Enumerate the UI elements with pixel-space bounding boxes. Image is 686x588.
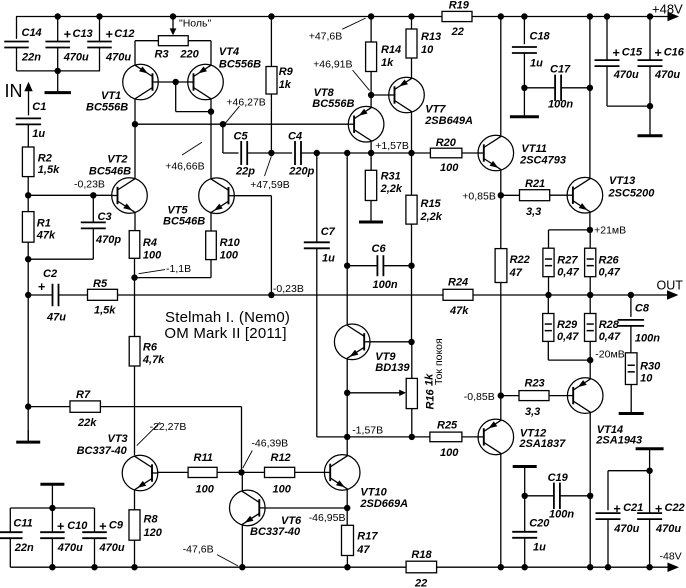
wire R22 bottom lead <box>500 283 502 396</box>
junction R17 rail node <box>344 564 350 570</box>
transistor VT12 <box>478 419 566 455</box>
wire R6 to VT3 <box>134 366 136 455</box>
svg-text:0,47: 0,47 <box>599 267 621 279</box>
label +46,66V <box>165 161 204 173</box>
junction rail C12 <box>96 13 102 19</box>
svg-text:OUT: OUT <box>657 279 684 293</box>
svg-text:IN: IN <box>5 81 23 101</box>
label -22,27V <box>150 421 187 433</box>
svg-text:C11: C11 <box>13 518 32 530</box>
junction VT10 emitter node <box>344 505 350 511</box>
svg-text:C14: C14 <box>22 27 42 39</box>
leader line -46,39V <box>243 451 253 469</box>
svg-text:R22: R22 <box>510 254 530 266</box>
wire R26 top lead <box>589 230 591 248</box>
svg-text:R31: R31 <box>381 171 401 183</box>
junction -0,85V node <box>498 392 504 398</box>
svg-text:VT10: VT10 <box>360 487 387 499</box>
svg-text:+47,59В: +47,59В <box>250 179 289 191</box>
svg-text:BC546B: BC546B <box>163 216 205 228</box>
resistor R1 <box>22 212 56 243</box>
wire C21 branch <box>608 471 650 511</box>
capacitor C18 <box>512 31 551 70</box>
svg-text:BC556B: BC556B <box>219 59 261 71</box>
svg-text:C6: C6 <box>372 243 387 255</box>
wire R23 to VT14 base <box>549 395 567 397</box>
svg-text:C16: C16 <box>664 47 685 59</box>
svg-text:-48V: -48V <box>660 551 682 563</box>
svg-text:+: + <box>57 520 64 534</box>
leader line +46,27V <box>225 106 239 123</box>
wire C12 bottom lead <box>99 47 101 71</box>
svg-text:-0,23В: -0,23В <box>74 179 105 191</box>
label +47,6V <box>309 31 343 43</box>
junction VT9 base node <box>408 339 414 345</box>
svg-text:+: + <box>655 46 662 60</box>
svg-text:-1,57В: -1,57В <box>352 425 383 437</box>
wire R20 to VT11 base <box>462 152 478 154</box>
resistor R31 <box>365 170 403 200</box>
junction C17/VT13 node <box>587 85 593 91</box>
leader line +47,6V <box>342 18 365 29</box>
svg-text:+: + <box>613 502 620 516</box>
wire R13 top lead <box>411 17 413 30</box>
resistor R11 <box>188 452 217 496</box>
transistor VT3 <box>77 433 158 491</box>
wire C3 bottom <box>28 228 93 259</box>
junction rail C15 <box>604 13 610 19</box>
wire R6 top lead <box>134 278 136 337</box>
svg-text:22p: 22p <box>235 166 255 178</box>
svg-text:1,5k: 1,5k <box>38 164 60 176</box>
wire VT6 emitter lead <box>241 525 243 567</box>
junction rail R13 <box>408 13 414 19</box>
label +1,57V <box>375 140 409 152</box>
svg-text:47: 47 <box>509 267 523 279</box>
leader line -47,6V <box>217 555 238 566</box>
wire C19 left lead <box>525 495 554 497</box>
svg-text:100n: 100n <box>635 333 660 345</box>
svg-text:470u: 470u <box>63 52 89 64</box>
capacitor C3 <box>81 211 122 246</box>
svg-text:470u: 470u <box>105 52 131 64</box>
wire C18 top lead <box>523 17 525 45</box>
transistor VT11 <box>478 135 566 171</box>
capacitor C8 <box>618 303 661 345</box>
junction VT4 collector node <box>208 108 214 114</box>
wire C14 bottom lead <box>16 47 18 71</box>
svg-text:C2: C2 <box>43 268 57 280</box>
svg-text:R7: R7 <box>76 389 91 401</box>
wire VT14 collector lead <box>589 413 591 568</box>
resistor R6 <box>129 337 165 367</box>
junction C9 rail node <box>91 564 97 570</box>
svg-text:100n: 100n <box>549 509 574 521</box>
capacitor C12 <box>87 28 134 64</box>
wire C5 branch <box>223 124 239 153</box>
svg-text:BC556B: BC556B <box>86 102 128 114</box>
resistor R24 <box>443 277 473 318</box>
wire C20 bottom lead <box>524 538 526 568</box>
svg-text:R18: R18 <box>411 549 432 561</box>
junction C22 rail node <box>646 564 652 570</box>
junction rail VT13 line <box>587 13 593 19</box>
svg-text:22: 22 <box>451 26 464 38</box>
resistor R14 <box>366 42 402 72</box>
svg-text:+46,27В: +46,27В <box>226 97 265 109</box>
svg-text:C5: C5 <box>234 131 249 143</box>
label R16 value <box>424 373 437 410</box>
svg-text:C10: C10 <box>67 520 88 532</box>
svg-text:100: 100 <box>196 484 215 496</box>
wire R16 top lead <box>411 342 413 378</box>
transistor VT8 <box>312 87 384 142</box>
wire C19 right lead <box>560 495 590 497</box>
wire -20mV wire <box>548 341 590 360</box>
wire left column <box>27 259 29 441</box>
svg-text:+: + <box>38 280 45 294</box>
junction C7 tap <box>314 150 320 156</box>
junction C21 rail node <box>605 564 611 570</box>
svg-text:+48V: +48V <box>652 2 683 17</box>
label -1,57V <box>352 425 383 437</box>
transistor VT6 <box>230 490 303 538</box>
transistor VT14 <box>567 378 642 447</box>
capacitor C9 <box>82 520 125 555</box>
svg-text:4,7k: 4,7k <box>142 354 165 366</box>
wire VT2 emitter lead <box>134 212 136 230</box>
leader line -22,27V <box>137 422 160 445</box>
junction C8 node <box>628 292 634 298</box>
svg-text:BC546B: BC546B <box>89 166 131 178</box>
svg-text:1u: 1u <box>322 253 335 265</box>
wire VT9 emitter lead <box>346 359 348 393</box>
ground G2 <box>16 430 40 442</box>
wire cap bank bottom <box>17 70 101 72</box>
junction VT9 branch tap <box>344 150 350 156</box>
wire C13 top lead <box>57 17 59 42</box>
label Tok pokoya <box>433 338 445 385</box>
wire C9 top lead <box>94 508 96 532</box>
label +47,59V <box>250 179 289 191</box>
junction VT1/VT2 node <box>132 121 138 127</box>
svg-text:10: 10 <box>640 373 653 385</box>
junction VT8 emitter node <box>368 92 374 98</box>
junction R16 bottom node <box>409 434 415 440</box>
wire R9 bottom lead <box>270 94 272 153</box>
svg-text:C1: C1 <box>32 101 46 113</box>
wire comp wire <box>301 152 431 154</box>
wire VT11 to R21 <box>501 194 520 196</box>
leader line +47,59V <box>265 157 272 177</box>
capacitor C2 <box>38 268 66 324</box>
resistor R13 <box>406 29 441 58</box>
svg-text:R17: R17 <box>357 531 378 543</box>
resistor R30 <box>625 353 661 385</box>
leader line +46,66V <box>182 142 202 155</box>
wire R1 bottom lead <box>27 242 29 259</box>
leader line -1,1V <box>139 270 166 274</box>
wire R26 bottom lead <box>589 277 591 295</box>
svg-text:C22: C22 <box>665 502 685 514</box>
svg-text:-1,1В: -1,1В <box>166 263 191 275</box>
leader line +46,91V <box>353 70 370 90</box>
svg-text:R2: R2 <box>38 153 52 165</box>
svg-text:-46,39В: -46,39В <box>251 438 288 450</box>
ground G1 <box>45 71 71 93</box>
junction R16 wiper node <box>344 390 350 396</box>
wire R22 top lead <box>500 195 502 248</box>
svg-text:R8: R8 <box>144 514 159 526</box>
svg-text:R26: R26 <box>599 255 620 267</box>
wire VT8 base wire <box>371 94 389 96</box>
svg-text:C17: C17 <box>550 64 571 76</box>
resistor R2 <box>22 147 60 177</box>
wire C8 to R30 <box>630 326 632 353</box>
svg-text:R6: R6 <box>143 342 158 354</box>
svg-text:220p: 220p <box>288 166 314 178</box>
svg-text:100: 100 <box>143 250 162 262</box>
svg-text:VT2: VT2 <box>107 154 127 166</box>
ground G5 <box>638 106 663 136</box>
trimmer wiper arrow Nol <box>170 17 177 36</box>
resistor R20 <box>430 137 462 174</box>
svg-text:2,2k: 2,2k <box>420 211 443 223</box>
label -0,23V left <box>74 179 105 191</box>
svg-text:+0,85В: +0,85В <box>462 191 496 203</box>
svg-text:2SA1837: 2SA1837 <box>518 438 566 450</box>
wire C11 top lead <box>9 508 11 532</box>
svg-text:OM Mark II [2011]: OM Mark II [2011] <box>164 325 286 342</box>
label OUT with arrow <box>657 279 684 300</box>
wire VT2 collector lead <box>134 124 136 179</box>
junction VT14 rail node <box>587 564 593 570</box>
wire R9 top lead <box>270 17 272 67</box>
resistor R18 <box>406 549 437 588</box>
transistor VT13 <box>567 175 655 213</box>
wire VT8 collector lead <box>370 141 372 171</box>
svg-text:2,2k: 2,2k <box>380 183 403 195</box>
svg-text:-47,6В: -47,6В <box>183 544 214 556</box>
junction +21mV node <box>587 227 593 233</box>
svg-text:R16: R16 <box>425 388 437 409</box>
wire R1 top lead <box>27 195 29 211</box>
wire VT9 collector branch <box>346 153 348 324</box>
svg-text:BC337-40: BC337-40 <box>77 445 128 457</box>
svg-text:+: + <box>64 28 71 42</box>
svg-text:1,5k: 1,5k <box>94 305 116 317</box>
wire VT3 base wire <box>158 471 188 473</box>
svg-text:C3: C3 <box>98 211 112 223</box>
wire output wire <box>473 294 668 296</box>
transistor VT5 <box>163 178 234 228</box>
junction C5 branch tap <box>220 121 226 127</box>
svg-text:2SC5200: 2SC5200 <box>608 188 656 200</box>
svg-text:22: 22 <box>414 578 427 588</box>
wire VT4 to VT5 <box>210 99 212 179</box>
common rail tap T2 <box>636 449 664 471</box>
svg-text:+: + <box>655 502 662 516</box>
svg-text:470u: 470u <box>613 523 639 535</box>
title text <box>164 309 290 342</box>
wire C18 bottom lead <box>523 53 525 88</box>
wire feedback wire -0,23V <box>118 294 444 296</box>
wire R8 bottom lead <box>134 540 136 567</box>
wire R17 top lead <box>346 508 348 525</box>
junction C3 tap <box>90 192 96 198</box>
wire C17 left lead <box>524 87 555 89</box>
svg-text:C9: C9 <box>109 520 124 532</box>
label -46,95V <box>309 512 346 524</box>
junction C18/C17 node <box>521 85 527 91</box>
svg-text:47k: 47k <box>449 305 469 317</box>
resistor R27 <box>543 248 580 278</box>
svg-text:2SC4793: 2SC4793 <box>519 155 566 167</box>
label +0,85V <box>462 191 496 203</box>
ground G6 <box>619 385 644 414</box>
svg-text:-0,23В: -0,23В <box>273 283 304 295</box>
resistor R8 <box>129 510 163 540</box>
capacitor C17 <box>548 64 573 111</box>
wire R25 to VT12 base <box>462 436 478 438</box>
capacitor C1 <box>16 101 47 140</box>
svg-text:R23: R23 <box>525 378 545 390</box>
label +46,91V <box>313 59 352 71</box>
wire +48V rail <box>16 16 670 18</box>
resistor R9 <box>266 66 294 94</box>
junction C19/C20 node <box>522 493 528 499</box>
capacitor C4 <box>288 131 315 178</box>
svg-text:470u: 470u <box>654 69 680 81</box>
junction R1/C3 node <box>25 256 31 262</box>
wire C15 top lead <box>606 17 608 61</box>
junction rail C13 <box>55 13 61 19</box>
junction VT12 rail node <box>498 564 504 570</box>
label -47,6V <box>183 544 214 556</box>
junction VT5 base node <box>268 292 274 298</box>
svg-text:"Ноль": "Ноль" <box>179 18 212 30</box>
wire C6 right lead <box>383 265 411 267</box>
resistor R5 <box>88 278 118 317</box>
junction tail node -1,1V <box>131 274 137 280</box>
svg-text:R25: R25 <box>437 420 458 432</box>
capacitor C22 <box>637 502 685 535</box>
trimmer wiper wire R16 <box>347 390 406 396</box>
transistor VT1 <box>86 64 158 113</box>
svg-text:10: 10 <box>421 44 434 56</box>
capacitor C10 <box>40 520 88 555</box>
wire VT13 emitter lead <box>589 212 591 230</box>
svg-text:+1,57В: +1,57В <box>375 140 409 152</box>
svg-text:R3: R3 <box>155 49 169 61</box>
svg-text:R29: R29 <box>557 319 578 331</box>
svg-text:+21мВ: +21мВ <box>594 225 626 237</box>
resistor R23 <box>519 378 549 419</box>
junction rail Nol tap <box>170 13 176 19</box>
svg-text:C20: C20 <box>529 518 550 530</box>
wire C9 bottom lead <box>94 538 96 567</box>
label -20mV <box>595 349 624 361</box>
svg-text:VT11: VT11 <box>521 143 546 155</box>
wire VT5 emitter lead <box>210 213 212 232</box>
capacitor C13 <box>45 28 92 64</box>
svg-text:22k: 22k <box>77 417 97 429</box>
transistor VT9 <box>334 324 410 374</box>
junction VT6 rail node <box>239 564 245 570</box>
junction R9 bottom node <box>268 150 274 156</box>
wire C7 top lead <box>316 153 318 242</box>
junction C20 rail node <box>522 564 528 570</box>
resistor R12 <box>265 452 295 496</box>
ground G3 <box>359 201 383 223</box>
wire R3 right to VT4 <box>188 41 211 66</box>
svg-text:100: 100 <box>440 162 459 174</box>
svg-text:3,3: 3,3 <box>525 406 540 418</box>
wire C12 top lead <box>99 17 101 42</box>
svg-text:R5: R5 <box>93 278 108 290</box>
svg-text:220: 220 <box>179 49 199 61</box>
svg-text:R19: R19 <box>449 0 470 12</box>
wire C20 top lead <box>524 496 526 532</box>
svg-text:C8: C8 <box>635 303 650 315</box>
resistor R10 <box>206 231 241 262</box>
svg-text:C4: C4 <box>288 131 302 143</box>
svg-text:0,47: 0,47 <box>557 331 579 343</box>
junction base node <box>173 79 179 85</box>
capacitor C16 <box>638 46 685 81</box>
svg-text:VT4: VT4 <box>219 46 239 58</box>
svg-text:2SD669A: 2SD669A <box>359 498 408 510</box>
wire VT10 collector lead <box>346 437 348 456</box>
junction C6 right node <box>408 263 414 269</box>
svg-text:47: 47 <box>356 544 370 556</box>
transistor VT7 <box>389 77 473 127</box>
junction VT8 collector node <box>368 150 374 156</box>
svg-text:+47,6В: +47,6В <box>309 31 343 43</box>
wire R16 bottom lead <box>411 409 413 437</box>
wire R3 left to VT1 <box>135 41 158 66</box>
resistor R7 <box>70 389 100 429</box>
svg-text:+46,91В: +46,91В <box>313 59 352 71</box>
junction VT10 collector node <box>344 434 350 440</box>
capacitor C7 <box>304 226 336 265</box>
resistor R17 <box>342 525 379 556</box>
svg-text:R13: R13 <box>421 31 441 43</box>
junction rail R14 <box>368 13 374 19</box>
svg-text:100: 100 <box>440 447 459 459</box>
wire VT6 collector lead <box>241 472 243 490</box>
ground G4 <box>510 88 539 117</box>
transistor VT4 <box>188 46 261 100</box>
transistor VT10 <box>324 455 408 510</box>
wire VT12 to R23 <box>501 395 519 397</box>
junction R26/R28 node <box>587 292 593 298</box>
junction C2 node <box>25 292 31 298</box>
wire VT8 emitter lead <box>370 95 372 108</box>
wire C17 right lead <box>561 87 590 89</box>
junction C15/C16 node <box>647 103 653 109</box>
svg-text:1u: 1u <box>530 58 543 70</box>
svg-text:+: + <box>106 28 113 42</box>
wire VT10 emitter lead <box>346 489 348 508</box>
wire C14 top lead <box>16 17 18 39</box>
svg-text:22n: 22n <box>21 52 41 64</box>
label -0,85V <box>464 391 495 403</box>
capacitor C11 <box>0 518 34 555</box>
svg-text:R1: R1 <box>37 218 51 230</box>
resistor R29 <box>543 314 580 344</box>
svg-text:-0,85В: -0,85В <box>464 391 495 403</box>
